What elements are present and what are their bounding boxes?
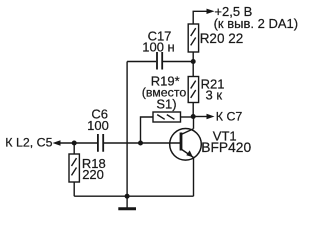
capacitor C6 xyxy=(98,134,103,152)
arrowhead +2,5 V xyxy=(207,9,215,14)
wire R20 to node xyxy=(192,52,194,62)
node R19/R21/collector xyxy=(191,114,196,119)
capacitor C17 xyxy=(127,52,193,70)
node ground junction xyxy=(125,194,130,199)
arrowhead K C7 xyxy=(207,114,215,119)
svg-text:S1): S1) xyxy=(156,97,176,112)
wire input line K L2,C5 xyxy=(60,142,141,144)
node R18 top xyxy=(72,141,77,146)
wire supply top with arrow to +2,5 V xyxy=(193,11,208,24)
transistor VT1 BFP420 xyxy=(170,117,202,197)
resistor R19 (jumper in place of S1) xyxy=(141,112,194,143)
svg-text:100: 100 xyxy=(87,118,109,133)
node base xyxy=(138,141,143,146)
resistor R18 xyxy=(69,143,79,196)
svg-text:К C7: К C7 xyxy=(216,109,243,123)
svg-text:R20 22: R20 22 xyxy=(200,31,244,46)
ground xyxy=(118,196,136,209)
wire left rail (C17 left plate down to ground wire, crosses base wire) xyxy=(126,62,128,197)
svg-text:220: 220 xyxy=(82,167,104,182)
wire bottom (emitter to ground run) xyxy=(74,195,193,197)
svg-text:(к выв. 2 DA1): (к выв. 2 DA1) xyxy=(214,16,298,31)
svg-text:BFP420: BFP420 xyxy=(201,140,251,155)
resistor R20 xyxy=(188,24,198,52)
arrowhead K L2,C5 xyxy=(53,140,61,145)
wire arrow to K C7 xyxy=(193,116,208,118)
svg-text:100 н: 100 н xyxy=(142,39,174,54)
svg-text:К L2, C5: К L2, C5 xyxy=(5,135,52,149)
wire base lead xyxy=(141,142,182,144)
node C17/R20/R21 xyxy=(191,59,196,64)
resistor R21 xyxy=(188,62,198,117)
svg-text:3 к: 3 к xyxy=(206,88,223,103)
